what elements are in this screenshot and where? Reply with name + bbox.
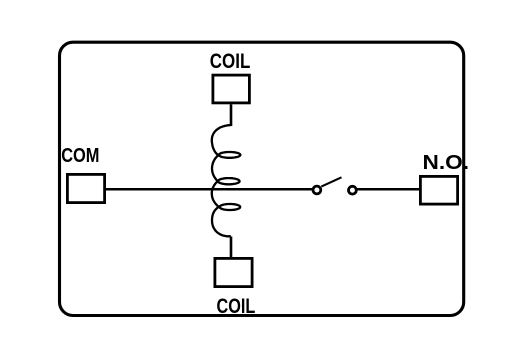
svg-text:COIL: COIL — [217, 294, 256, 318]
switch lever (normally open) — [321, 177, 341, 186]
switch pole contact (circle) — [313, 186, 321, 194]
COM terminal box — [67, 174, 104, 202]
wire from top coil box to inductor — [230, 104, 233, 126]
svg-text:N.O.: N.O. — [423, 152, 470, 174]
wire switch to N.O. terminal — [357, 188, 420, 191]
relay outline border — [60, 42, 464, 315]
switch throw contact (circle) — [349, 186, 357, 194]
coil terminal box (bottom) — [215, 258, 252, 286]
N.O. terminal box — [420, 176, 457, 204]
inductor L1 (relay coil) — [212, 125, 241, 236]
coil terminal box (top) — [213, 75, 250, 103]
wire COM to switch pole — [106, 188, 313, 191]
svg-text:COM: COM — [61, 145, 99, 167]
svg-text:COIL: COIL — [210, 49, 251, 73]
wire from inductor to bottom coil box — [230, 237, 233, 259]
